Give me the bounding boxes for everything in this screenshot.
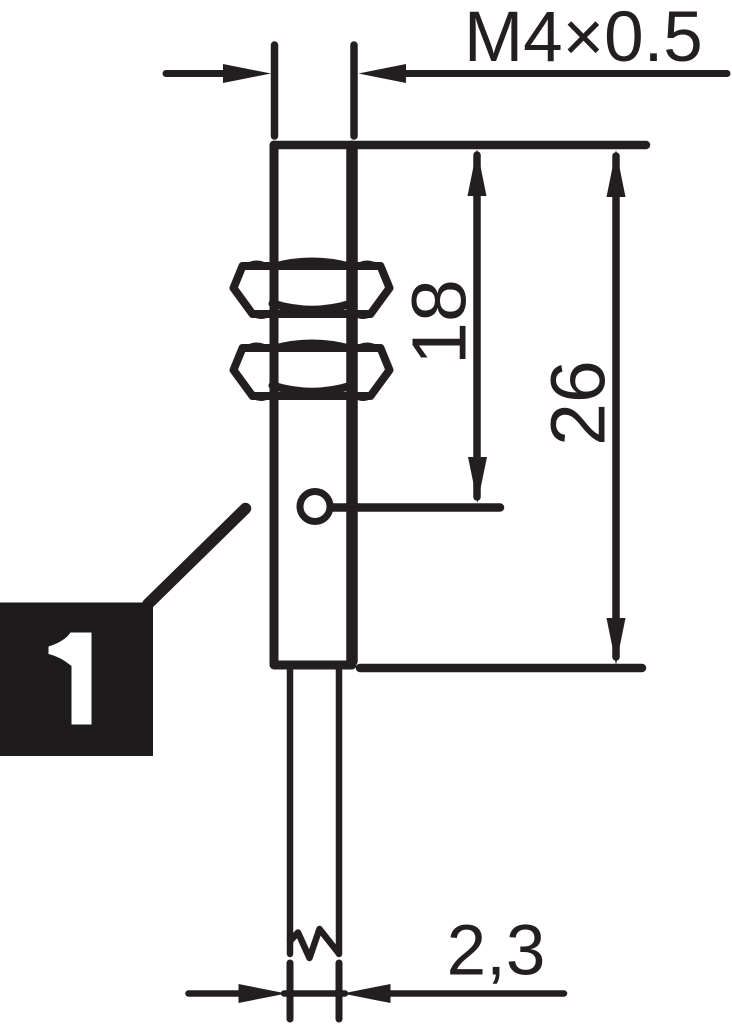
dimension line 2,3 right segment [385,990,564,997]
svg-text:2,3: 2,3 [447,912,546,991]
arrowhead pointing right (2,3) [239,984,287,1003]
extension line left (barrel left edge) [271,45,279,136]
arrowhead pointing left (2,3) [343,984,391,1003]
cable right edge [336,668,343,954]
cable left edge [287,668,294,954]
dimension line M4 left segment [166,70,240,77]
callout box 1 [0,603,153,757]
barrel top face line extending right (extension for 18/26) [274,141,646,150]
extension line at barrel bottom (for 26 dim) [360,664,642,673]
arrowhead pointing left at right extension line [359,64,407,83]
callout leader line to position 1 [148,509,246,605]
barrel right edge thread line [346,149,358,661]
extension line cable right [336,963,343,1019]
hex nut 1 [234,261,390,317]
dimension line 2,3 left segment [189,990,246,997]
svg-text:26: 26 [536,360,622,446]
dimension line 26 vertical [612,156,620,657]
LED indicator circle [300,492,330,522]
arrowhead up (26) [607,150,626,197]
sensor barrel body outline [274,145,352,665]
arrowhead down (18) [468,457,487,503]
arrowhead up (18) [468,149,487,196]
dimension line 18 vertical [473,155,481,497]
svg-text:18: 18 [397,279,483,365]
arrowhead down (26) [607,618,626,665]
callout number 1 [49,633,92,725]
extension line cable left [287,963,294,1019]
extension line right (barrel right edge) [350,45,358,136]
dimension line M4 right segment [402,70,727,77]
svg-text:M4×0.5: M4×0.5 [464,0,703,77]
LED leader / extension line for 18 dim [333,503,500,512]
dimension line 2,3 middle segment [284,990,345,997]
arrowhead pointing right at left extension line [223,64,271,83]
cable break zigzag [290,929,339,958]
hex nut 2 [234,343,390,399]
